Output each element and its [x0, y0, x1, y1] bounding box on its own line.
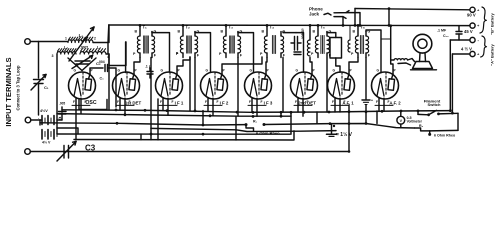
speaker neck — [419, 53, 422, 62]
speaker feed wire — [408, 59, 415, 62]
plate wire tube8 — [391, 27, 393, 74]
wire top bus 45V — [109, 24, 470, 27]
node busB x125 — [124, 113, 127, 116]
transformer T3 — [219, 24, 243, 58]
svg-text:L₀: L₀ — [79, 33, 84, 38]
svg-text:.004: .004 — [98, 60, 105, 64]
capacitor C3 arrow — [57, 142, 76, 162]
input terminal 2 — [25, 117, 31, 123]
wire corner up to top bus — [107, 25, 110, 43]
component box — [330, 38, 342, 59]
filament jog x341 — [331, 104, 349, 106]
svg-text:R₁: R₁ — [253, 119, 258, 123]
svg-text:4½ V: 4½ V — [42, 141, 51, 145]
node busA x349 — [348, 110, 351, 113]
svg-text:1: 1 — [65, 37, 67, 41]
wire A+ drop — [451, 54, 453, 113]
svg-text:F: F — [295, 100, 297, 104]
svg-text:+: + — [371, 99, 373, 103]
filament leg 7 — [207, 98, 209, 111]
speaker base — [413, 62, 433, 69]
transformer T1 — [133, 24, 157, 58]
filament leg 1 — [75, 98, 77, 140]
left elbow y128 — [57, 128, 78, 134]
coil L1 — [57, 49, 76, 54]
plate wire tube3 — [177, 57, 190, 74]
svg-text:B: B — [353, 30, 356, 34]
drop T4 F — [282, 58, 284, 113]
speaker inner — [418, 39, 427, 48]
svg-text:INPUT TERMINALS: INPUT TERMINALS — [4, 57, 13, 126]
node jack bus — [359, 24, 362, 27]
svg-text:T₄: T₄ — [270, 25, 275, 30]
node busA x291 — [290, 111, 293, 114]
plate wire tube5 — [266, 58, 267, 75]
filament leg 9 — [251, 98, 253, 112]
filament jog x126 — [116, 104, 134, 106]
phone jack pointer — [324, 13, 331, 15]
svg-text:6 Ohm Rheo: 6 Ohm Rheo — [434, 133, 456, 137]
wire C1 down — [38, 84, 40, 116]
coil L2 — [80, 49, 106, 54]
filament leg 13 — [334, 98, 336, 112]
filament leg 10 — [256, 98, 258, 116]
svg-text:F: F — [307, 100, 309, 104]
filament leg 5 — [162, 98, 164, 110]
capacitor C3 — [63, 146, 65, 159]
node busA x281 — [280, 111, 283, 114]
plate wire tube1 osc — [90, 68, 103, 74]
plate wire tube7 — [349, 58, 358, 75]
wire +A — [453, 53, 470, 55]
filament jog x82 — [72, 104, 90, 106]
small coil before T6 — [349, 25, 351, 40]
node x389 — [388, 24, 391, 27]
svg-text:B: B — [135, 30, 138, 34]
wire terminal2 lead — [31, 119, 40, 121]
filament leg 3 — [119, 98, 121, 110]
grid wire tube2 — [125, 42, 127, 73]
wire left rail x57 — [56, 54, 58, 134]
svg-text:I F 1: I F 1 — [175, 101, 184, 106]
wire x158 — [157, 99, 159, 140]
coil L0 — [68, 37, 93, 42]
grid wire tube3 — [152, 32, 170, 73]
wire battery row1 — [40, 119, 42, 121]
plate wire tube2 — [134, 58, 140, 75]
wire x236 — [235, 116, 237, 140]
battery C — [331, 124, 333, 134]
svg-text:C₁: C₁ — [44, 85, 49, 90]
terminal +45V — [470, 23, 475, 28]
filament jog x385 — [375, 104, 393, 106]
wire terminal1 to L0 — [30, 41, 68, 43]
svg-text:I F 2: I F 2 — [220, 101, 229, 106]
voltmeter leads — [400, 111, 402, 116]
transformer T5 — [311, 24, 332, 58]
svg-text:B: B — [221, 30, 224, 34]
grid wire tube5 — [238, 32, 254, 73]
svg-text:Jack: Jack — [309, 11, 320, 16]
filament leg 16 — [383, 98, 385, 111]
capacitor C2 plates — [75, 60, 90, 62]
wire x203 — [202, 111, 204, 125]
svg-text:A.F. 2: A.F. 2 — [389, 101, 401, 106]
wire terminal1 drop — [38, 42, 40, 79]
transformer T4 — [260, 24, 286, 58]
grid wire tube4 — [195, 32, 211, 73]
svg-text:"A" Battery: "A" Battery — [490, 43, 495, 65]
svg-text:= 1½ V: = 1½ V — [336, 131, 353, 138]
filament jog x258 — [248, 104, 266, 106]
osc loop wire — [79, 100, 107, 110]
grid wire tube8 — [366, 30, 381, 73]
bus B — [57, 114, 291, 117]
node busA x450.3 — [449, 109, 452, 112]
svg-text:L₂: L₂ — [97, 45, 101, 50]
svg-text:T₃: T₃ — [229, 25, 234, 30]
svg-text:F: F — [205, 100, 207, 104]
capacitor C1 — [34, 79, 44, 81]
svg-text:F: F — [172, 100, 174, 104]
wire x291 — [290, 112, 292, 134]
tube A.F. 2 — [372, 69, 399, 100]
node busB x253 — [252, 115, 255, 118]
tube Osc — [69, 69, 96, 100]
svg-text:Connect to 3 Tap Loop: Connect to 3 Tap Loop — [16, 65, 21, 110]
filament switch — [427, 113, 430, 116]
node busA x253 — [252, 111, 255, 114]
svg-text:F: F — [129, 100, 131, 104]
plate wire tube4 — [222, 57, 262, 74]
node busG — [348, 150, 351, 153]
svg-text:T₅: T₅ — [321, 25, 326, 30]
drop T3 F — [237, 58, 239, 117]
wire A- drop — [449, 40, 451, 111]
filament leg 2 — [80, 98, 82, 114]
svg-text:T₁: T₁ — [143, 25, 148, 30]
node busB x210 — [209, 114, 212, 117]
svg-text:C₁₂: C₁₂ — [443, 34, 449, 38]
svg-text:C₅: C₅ — [59, 117, 63, 121]
node busA x401 — [400, 110, 403, 113]
svg-text:F: F — [217, 100, 219, 104]
grid wire tube6 — [283, 31, 296, 34]
filament leg 14 — [339, 98, 341, 112]
wire switch left — [418, 113, 429, 115]
tube I F 2 — [201, 69, 228, 100]
tickler rect — [109, 42, 126, 66]
node busE — [150, 133, 153, 136]
capacitor C9 — [294, 51, 301, 53]
svg-text:L₁: L₁ — [64, 45, 68, 50]
node busA x329 — [328, 111, 331, 114]
node busA x382 — [381, 110, 384, 113]
terminal -A — [470, 37, 475, 42]
svg-text:F: F — [388, 100, 390, 104]
svg-text:B: B — [178, 30, 181, 34]
node busA x237 — [236, 111, 239, 114]
node busC — [116, 122, 119, 125]
svg-text:4½V: 4½V — [40, 109, 48, 113]
svg-text:Voltmeter: Voltmeter — [407, 120, 423, 124]
wire L2 to vertical — [106, 53, 108, 55]
wire x320 — [316, 112, 318, 124]
osc tickler box — [108, 25, 110, 43]
svg-text:90 V: 90 V — [467, 13, 476, 18]
filament leg 12 — [302, 98, 304, 116]
phone jack contacts — [334, 11, 349, 13]
transformer T6 — [351, 24, 371, 58]
speaker base line — [411, 69, 437, 71]
wire cap to x116 — [108, 68, 117, 107]
filament leg 15 — [378, 98, 380, 111]
stub x141 — [140, 134, 142, 140]
svg-text:F: F — [332, 100, 334, 104]
plate choke — [309, 25, 311, 40]
svg-text:2: 2 — [94, 37, 96, 41]
osc coupling cap .004 — [104, 65, 106, 72]
brace A battery — [481, 36, 487, 57]
rheostat R2 — [415, 128, 430, 134]
brace B battery — [480, 7, 486, 33]
svg-text:F: F — [160, 100, 162, 104]
bus D — [151, 128, 336, 131]
battery A cells row1 — [41, 116, 43, 125]
svg-text:.1 MF: .1 MF — [437, 29, 447, 33]
variometer arrow through L0 — [69, 27, 94, 61]
terminal +90V — [470, 7, 475, 12]
interstage cap — [147, 71, 153, 73]
wire 90V left drop — [354, 9, 356, 26]
tube 1&#8530;&#8201;Det — [113, 69, 140, 100]
wire x187 — [189, 57, 191, 111]
terminal +A — [470, 51, 475, 56]
drop T5 F — [326, 58, 328, 112]
plate wire tube6 — [310, 58, 312, 75]
node 90V drop — [354, 24, 357, 27]
drop T2 F — [194, 58, 196, 111]
node tube8 plate — [389, 24, 392, 27]
tube A.F. 1 — [328, 69, 355, 100]
filament leg 6 — [167, 98, 169, 115]
svg-text:C3: C3 — [85, 144, 96, 153]
filament leg 4 — [124, 98, 126, 114]
svg-text:.0005: .0005 — [80, 46, 88, 50]
battery A cells row2 — [41, 130, 43, 140]
wire plate supply drop x389 — [388, 9, 390, 26]
tube I F 3 — [245, 69, 272, 100]
node busA x304 — [303, 111, 306, 114]
bus C2 — [264, 124, 415, 129]
svg-text:F: F — [344, 100, 346, 104]
node busC2 — [329, 122, 332, 125]
wire battery row2 stub — [39, 120, 41, 125]
capacitor C2 funnel — [68, 58, 82, 71]
input terminal 1 — [25, 39, 31, 45]
speaker feed coil — [391, 59, 394, 61]
speaker outer — [413, 34, 432, 53]
riser x349 — [348, 105, 350, 152]
wire x377 — [376, 111, 378, 124]
voltmeter — [397, 116, 405, 124]
node 90V jct — [388, 7, 391, 10]
ground — [365, 58, 367, 100]
wire -A — [450, 39, 470, 41]
bus E — [57, 133, 290, 135]
capacitor C1 arrow — [31, 75, 46, 91]
transformer T2 — [176, 24, 200, 58]
svg-text:C₀: C₀ — [100, 77, 105, 81]
bus G from terminal3 — [30, 151, 349, 153]
svg-text:R₂: R₂ — [419, 124, 424, 128]
svg-text:"B" Battery: "B" Battery — [490, 12, 495, 34]
svg-text:F: F — [73, 100, 75, 104]
grid wire tube7 — [327, 32, 336, 38]
tube 2&#8319;&#7496; Det — [291, 69, 318, 100]
capacitor C2 arrow — [72, 56, 93, 69]
svg-text:.1 ƒ: .1 ƒ — [145, 65, 151, 69]
rheostat R1 — [246, 125, 254, 132]
tube I F 1 — [156, 69, 183, 100]
node busA x116 — [115, 109, 118, 112]
stub x151 lower — [150, 128, 152, 139]
filament jog x169 — [159, 104, 177, 106]
svg-text:F: F — [249, 100, 251, 104]
svg-text:I F 3: I F 3 — [264, 101, 273, 106]
svg-text:T₆: T₆ — [361, 25, 366, 30]
node busA x195 — [194, 110, 197, 113]
drop T1 F — [150, 58, 152, 129]
wire x281 — [280, 112, 282, 116]
bus F — [74, 131, 294, 140]
svg-text:1st DET: 1st DET — [125, 101, 142, 106]
svg-text:4 ½ V: 4 ½ V — [461, 47, 472, 52]
bypass cap .1MF — [456, 31, 462, 33]
svg-text:F: F — [261, 100, 263, 104]
wire x109 down — [108, 54, 110, 110]
grid condenser C8 — [294, 37, 296, 51]
svg-text:B: B — [313, 30, 316, 34]
svg-text:B: B — [262, 30, 265, 34]
node busB x281 — [280, 115, 283, 118]
filament jog x304 — [294, 104, 312, 106]
wire switch right — [439, 112, 459, 115]
node busA x366 — [365, 110, 368, 113]
wire L0 to corner — [93, 42, 108, 44]
svg-text:F: F — [117, 100, 119, 104]
svg-text:45 V: 45 V — [464, 29, 473, 34]
svg-text:3: 3 — [52, 54, 54, 58]
wire 90V line — [355, 9, 470, 10]
svg-text:Switch: Switch — [428, 102, 441, 107]
bus C — [40, 123, 246, 125]
node busA x418 — [417, 110, 420, 113]
svg-text:F: F — [85, 100, 87, 104]
capacitor C5 — [59, 111, 67, 113]
filament leg 8 — [212, 98, 214, 116]
svg-text:.005: .005 — [59, 102, 65, 106]
filament leg 11 — [297, 98, 299, 112]
bus A plus — [62, 110, 450, 113]
node switch wire — [451, 112, 454, 115]
svg-text:6 Ohm Rheo: 6 Ohm Rheo — [256, 131, 280, 136]
svg-text:T₂: T₂ — [186, 25, 191, 30]
node busA x167 — [166, 109, 169, 112]
input terminal 3 — [25, 149, 31, 155]
wire jack to bus — [342, 17, 344, 26]
node busA x145 — [144, 109, 147, 112]
filament jog x214 — [204, 104, 222, 106]
svg-text:F: F — [376, 100, 378, 104]
